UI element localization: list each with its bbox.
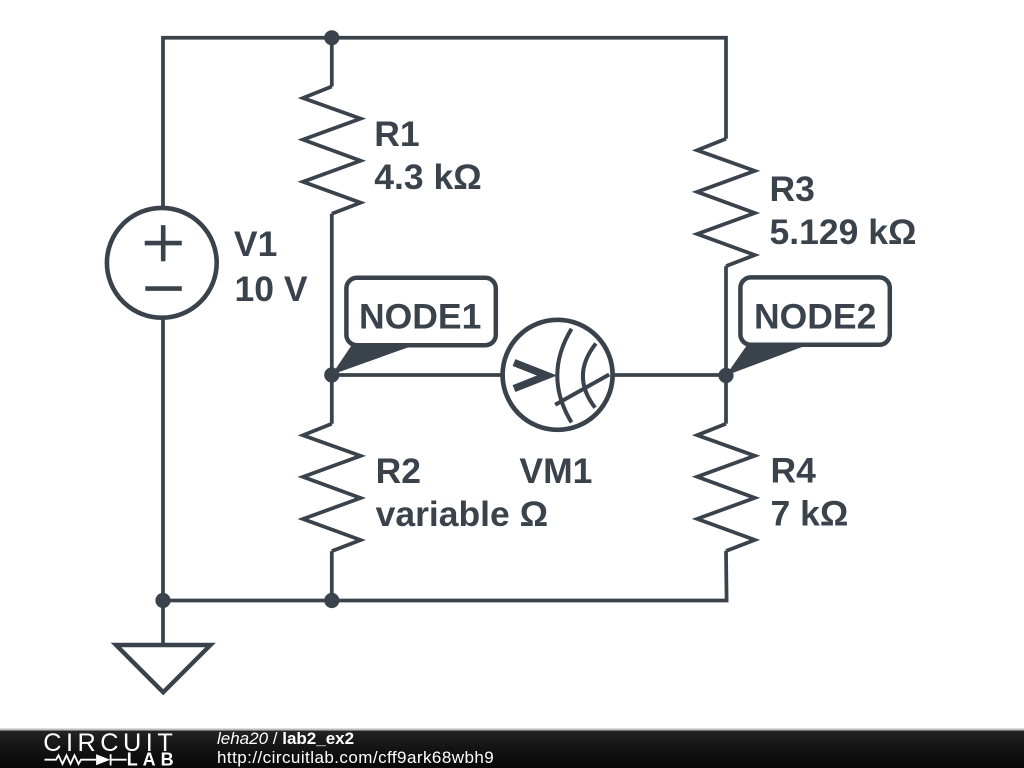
wire VM1 to NODE2: [614, 373, 727, 377]
wire R4 top stub: [724, 376, 728, 424]
wire R2 top stub: [330, 375, 334, 424]
resistor R4: [697, 424, 755, 551]
ground: [116, 645, 211, 692]
resistor R3: [697, 139, 755, 266]
svg-text:variable Ω: variable Ω: [376, 494, 549, 534]
wire R3 to NODE2: [724, 266, 728, 375]
node junction top: [324, 30, 339, 45]
label R2 value: [376, 451, 549, 534]
svg-text:V1: V1: [234, 224, 277, 264]
label V1 value: [234, 224, 308, 309]
node NODE1 callout: [332, 278, 496, 375]
voltage source V1: [107, 208, 217, 318]
wire top rail: [163, 38, 726, 207]
node junction bottom-left: [155, 593, 170, 608]
label R3 value: [770, 169, 917, 252]
svg-text:5.129 kΩ: 5.129 kΩ: [770, 212, 917, 252]
svg-text:VM1: VM1: [519, 451, 592, 491]
node NODE1 junction: [324, 367, 339, 382]
node NODE2 callout: [726, 277, 890, 375]
svg-text:NODE2: NODE2: [754, 297, 876, 337]
svg-text:LAB: LAB: [127, 750, 179, 768]
node junction R2 bottom: [324, 593, 339, 608]
wire ground stem: [161, 601, 165, 646]
label R1 value: [374, 114, 481, 197]
svg-text:NODE1: NODE1: [359, 297, 481, 337]
wire R1 to NODE1: [330, 214, 334, 375]
CircuitLab logo resistor-diode glyph: [45, 754, 127, 765]
svg-text:4.3 kΩ: 4.3 kΩ: [374, 157, 481, 197]
wire bottom rail: [163, 319, 727, 601]
resistor R2: [303, 424, 361, 551]
svg-text:R3: R3: [770, 169, 815, 209]
resistor R1: [303, 87, 361, 214]
svg-text:R1: R1: [374, 114, 419, 154]
svg-text:R4: R4: [771, 451, 817, 491]
svg-text:R2: R2: [376, 451, 421, 491]
svg-text:7 kΩ: 7 kΩ: [771, 494, 849, 534]
label R4 value: [771, 451, 849, 534]
wire NODE1 to VM1: [332, 373, 502, 377]
voltmeter VM1: [503, 320, 613, 430]
wire R2 bottom stub: [330, 551, 334, 600]
node NODE2 junction: [718, 368, 733, 383]
wire R1 top stub: [330, 38, 334, 87]
svg-text:10 V: 10 V: [235, 269, 308, 309]
